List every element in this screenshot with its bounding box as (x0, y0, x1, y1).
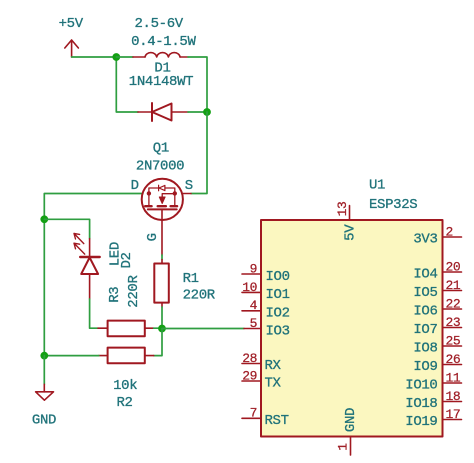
wire right rail down to source (191, 112, 207, 194)
svg-text:9: 9 (250, 261, 257, 276)
svg-text:R3: R3 (107, 287, 123, 303)
transistor Q1 (142, 179, 191, 255)
wire R3 to node (154, 327, 162, 329)
svg-text:10: 10 (242, 280, 257, 295)
diode D1 (152, 103, 172, 121)
svg-text:RST: RST (265, 413, 289, 429)
wire to GND (43, 356, 45, 385)
svg-text:28: 28 (242, 351, 257, 366)
svg-text:IO1: IO1 (266, 287, 290, 303)
svg-text:22: 22 (446, 296, 461, 311)
svg-text:26: 26 (446, 352, 461, 367)
wire LED to R3 (90, 299, 98, 328)
svg-text:IO2: IO2 (266, 306, 290, 322)
svg-text:TX: TX (265, 376, 282, 392)
svg-text:+5V: +5V (59, 16, 84, 32)
node junction LED net (40, 215, 48, 223)
svg-text:U1: U1 (369, 178, 385, 194)
svg-text:11: 11 (446, 370, 461, 385)
LED D2 leads (89, 239, 91, 299)
svg-text:IO7: IO7 (413, 322, 437, 338)
node junction IO3 net (158, 325, 166, 333)
wire junction down-left branch (116, 57, 138, 112)
svg-text:20: 20 (446, 259, 461, 274)
power +5V symbol (65, 40, 79, 57)
right pin numbers (446, 224, 461, 422)
wire diode to right rail (188, 111, 207, 113)
svg-text:IO19: IO19 (405, 414, 437, 430)
left pin names (265, 269, 290, 429)
svg-text:RX: RX (265, 358, 282, 374)
ground symbol (36, 384, 54, 400)
svg-text:29: 29 (242, 368, 257, 383)
wire R1 to node (161, 307, 163, 329)
LED D2 (74, 233, 100, 274)
pin 1 GND stub (350, 437, 352, 456)
node junction diode/right rail (203, 108, 211, 116)
svg-text:21: 21 (446, 278, 461, 293)
inductor L1 leads (133, 56, 188, 58)
wire gate to R1 (161, 255, 163, 260)
svg-text:G: G (145, 233, 161, 241)
resistor R2 (108, 348, 145, 364)
inductor L1 (145, 53, 180, 57)
svg-text:0.4-1.5W: 0.4-1.5W (131, 34, 196, 50)
svg-text:1N4148WT: 1N4148WT (129, 74, 193, 90)
resistor R1 leads (161, 260, 163, 308)
svg-text:2.5-6V: 2.5-6V (135, 16, 184, 32)
svg-text:IO6: IO6 (413, 304, 437, 320)
svg-text:Q1: Q1 (153, 140, 169, 156)
wire +5V to junction (72, 56, 117, 58)
svg-text:23: 23 (446, 315, 461, 330)
svg-text:IO8: IO8 (413, 341, 437, 357)
svg-text:R2: R2 (117, 395, 133, 411)
right pin stubs (443, 237, 462, 420)
wire to LED (44, 219, 89, 238)
svg-text:R1: R1 (183, 271, 199, 287)
right pin names (405, 232, 437, 430)
svg-text:IO3: IO3 (266, 323, 290, 339)
svg-text:17: 17 (446, 407, 461, 422)
svg-text:2: 2 (446, 224, 453, 239)
svg-text:IO0: IO0 (266, 269, 290, 285)
svg-text:IO5: IO5 (413, 285, 437, 301)
svg-text:13: 13 (335, 202, 350, 217)
svg-text:D2: D2 (119, 252, 135, 268)
svg-text:25: 25 (446, 333, 461, 348)
resistor R1 (154, 264, 169, 303)
svg-text:10k: 10k (113, 378, 137, 394)
svg-text:1: 1 (336, 443, 351, 451)
svg-text:IO4: IO4 (413, 267, 437, 283)
svg-text:2N7000: 2N7000 (136, 159, 184, 175)
node junction GND (40, 352, 48, 360)
svg-text:S: S (185, 178, 193, 194)
svg-text:7: 7 (250, 406, 257, 421)
svg-text:5V: 5V (342, 224, 358, 241)
resistor R3 leads (98, 327, 154, 329)
left pin stubs (242, 274, 261, 418)
resistor R3 (108, 321, 145, 337)
svg-text:220R: 220R (183, 288, 216, 304)
pin 13 5V stub (349, 206, 351, 221)
wire node down to R2 (154, 329, 162, 356)
svg-text:GND: GND (32, 412, 56, 428)
resistor R2 leads (99, 355, 154, 357)
wire R2 to left rail (44, 355, 99, 357)
wire junction to inductor (116, 56, 133, 58)
wire drain net (44, 194, 143, 356)
svg-text:3V3: 3V3 (413, 232, 437, 248)
svg-text:D: D (131, 178, 139, 194)
diode D1 leads (138, 111, 188, 113)
svg-text:IO10: IO10 (405, 378, 437, 394)
svg-text:IO9: IO9 (413, 359, 437, 375)
IC U1 body (261, 220, 443, 437)
wire inductor to right rail (188, 57, 207, 112)
node junction top (112, 53, 120, 61)
left pin numbers (242, 261, 257, 420)
svg-text:5: 5 (250, 316, 257, 331)
svg-text:IO18: IO18 (405, 396, 437, 412)
wire node to ESP IO3 (162, 328, 244, 330)
svg-text:4: 4 (250, 298, 258, 313)
svg-text:GND: GND (343, 408, 359, 432)
svg-text:220R: 220R (126, 275, 142, 308)
svg-text:ESP32S: ESP32S (369, 197, 417, 213)
svg-text:18: 18 (446, 389, 461, 404)
